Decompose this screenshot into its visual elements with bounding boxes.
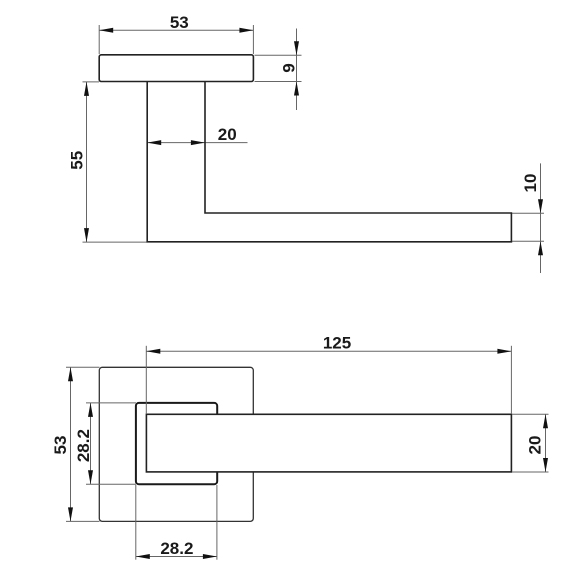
svg-text:28.2: 28.2 (160, 539, 193, 558)
svg-text:20: 20 (218, 125, 237, 144)
svg-text:20: 20 (525, 436, 544, 455)
svg-text:55: 55 (68, 151, 87, 170)
svg-text:9: 9 (279, 63, 298, 72)
svg-text:53: 53 (51, 436, 70, 455)
svg-text:125: 125 (323, 333, 351, 352)
svg-text:28.2: 28.2 (74, 429, 93, 462)
svg-text:53: 53 (170, 13, 189, 32)
svg-text:10: 10 (521, 174, 540, 193)
